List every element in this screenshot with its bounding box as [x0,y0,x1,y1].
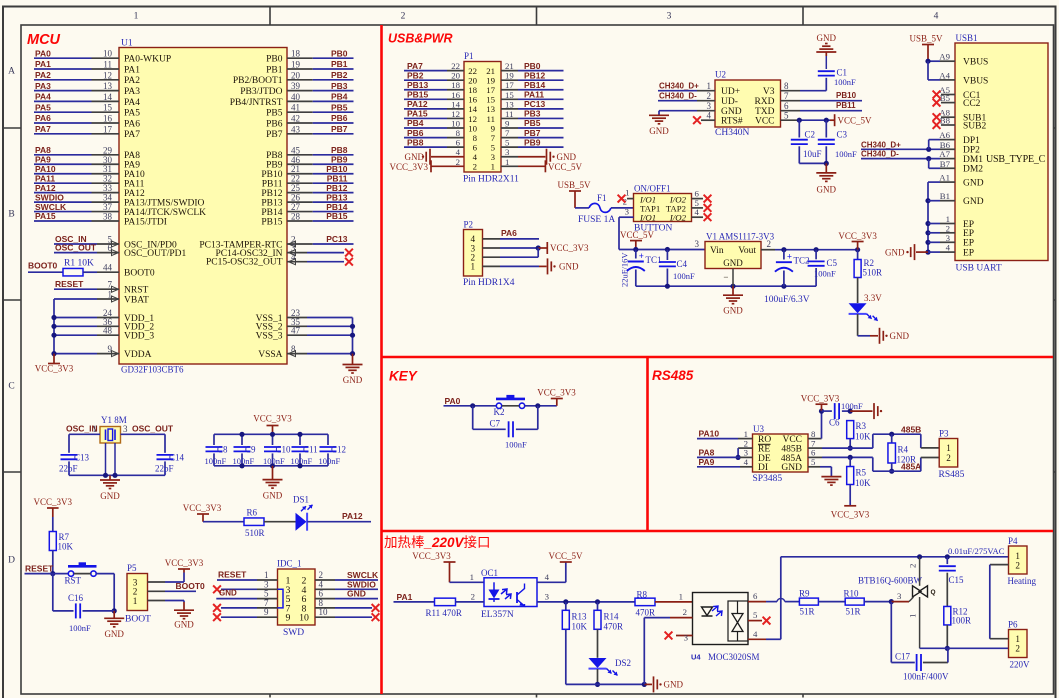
svg-text:R2: R2 [864,258,875,268]
svg-text:100nF: 100nF [505,440,527,450]
svg-text:P4: P4 [1008,536,1018,546]
svg-text:22: 22 [451,61,460,71]
svg-text:A1: A1 [939,173,950,183]
svg-text:P2: P2 [464,220,474,230]
svg-text:DP1: DP1 [963,136,980,146]
svg-text:220V: 220V [1010,660,1031,670]
svg-text:2: 2 [946,223,950,233]
svg-text:15: 15 [486,95,495,105]
svg-text:470R: 470R [636,608,656,618]
svg-text:GND: GND [963,179,984,189]
svg-text:PA6: PA6 [124,119,140,129]
svg-text:1: 1 [134,12,139,22]
svg-text:PA9: PA9 [699,457,715,467]
svg-text:1: 1 [946,443,951,453]
svg-text:100nF: 100nF [841,401,863,411]
svg-text:PB1: PB1 [331,59,348,69]
svg-text:C10: C10 [276,445,292,455]
svg-text:K2: K2 [494,407,505,417]
svg-text:VCC: VCC [755,117,775,127]
svg-text:PB7: PB7 [266,130,283,140]
svg-text:PA15/JTDI: PA15/JTDI [124,217,167,227]
svg-text:2: 2 [456,157,460,167]
svg-text:R7: R7 [59,532,70,542]
svg-text:14: 14 [103,92,113,102]
svg-text:GND: GND [557,152,577,162]
svg-text:EP: EP [963,229,974,239]
svg-text:CH340N: CH340N [715,128,749,138]
svg-text:100nF: 100nF [69,623,91,633]
svg-text:VCC_3V3: VCC_3V3 [412,551,451,561]
svg-text:PB12: PB12 [524,70,546,80]
svg-text:5: 5 [505,138,510,148]
svg-text:C11: C11 [303,445,318,455]
svg-text:A6: A6 [939,130,950,140]
svg-text:V3: V3 [763,87,775,97]
svg-text:PB3: PB3 [524,109,541,119]
svg-text:U4: U4 [691,653,701,662]
svg-text:C2: C2 [805,130,816,140]
svg-text:R13: R13 [572,612,588,622]
svg-text:GND: GND [890,331,910,341]
svg-text:PB5: PB5 [266,109,283,119]
svg-text:PB5: PB5 [524,118,541,128]
svg-text:FUSE 1A: FUSE 1A [578,215,615,225]
svg-text:GND: GND [343,375,363,385]
svg-text:VCC_3V3: VCC_3V3 [389,162,428,172]
svg-text:3: 3 [123,424,128,434]
svg-text:10K: 10K [855,432,871,442]
svg-text:BOOT0: BOOT0 [28,261,58,271]
svg-text:3: 3 [707,101,712,111]
svg-text:VCC_3V3: VCC_3V3 [831,510,870,520]
svg-text:NRST: NRST [124,286,148,296]
svg-text:R6: R6 [247,508,258,518]
svg-text:10: 10 [319,607,329,617]
svg-text:1: 1 [707,81,712,91]
svg-text:6: 6 [753,591,758,601]
svg-text:VCC_3V3: VCC_3V3 [550,243,589,253]
svg-text:10: 10 [468,123,477,133]
svg-text:48: 48 [103,326,113,336]
svg-text:3: 3 [545,591,550,601]
svg-text:PB6: PB6 [266,119,283,129]
svg-text:7: 7 [784,91,789,101]
svg-text:UD-: UD- [721,97,738,107]
svg-text:RESET: RESET [25,564,54,574]
svg-text:51R: 51R [846,607,861,617]
svg-text:GND: GND [174,620,194,630]
svg-text:RO: RO [758,435,771,445]
svg-text:I/O1: I/O1 [639,213,656,223]
svg-text:RTS#: RTS# [721,117,743,127]
svg-text:4: 4 [946,243,951,253]
svg-text:B7: B7 [940,159,951,169]
svg-text:6: 6 [473,142,478,152]
svg-text:−: − [723,272,728,282]
svg-text:GND: GND [263,491,283,501]
svg-text:CH340_D-: CH340_D- [659,92,697,101]
svg-text:EL357N: EL357N [481,610,514,620]
svg-text:R8: R8 [637,590,648,600]
svg-text:DS2: DS2 [615,658,631,668]
svg-text:DM1: DM1 [963,155,983,165]
svg-text:PB15: PB15 [261,217,282,227]
svg-text:I/O2: I/O2 [669,213,687,223]
svg-text:U1: U1 [121,39,133,49]
svg-text:A7: A7 [939,149,950,159]
svg-text:0.01uF/275VAC: 0.01uF/275VAC [948,546,1005,556]
svg-text:VCC_3V3: VCC_3V3 [35,364,74,374]
svg-text:1: 1 [491,162,495,172]
svg-text:20: 20 [291,70,301,80]
svg-text:DI: DI [758,463,768,473]
svg-text:18: 18 [468,85,477,95]
svg-text:1: 1 [744,429,748,439]
svg-text:Pin HDR1X4: Pin HDR1X4 [463,278,515,288]
svg-text:4: 4 [545,572,550,582]
svg-text:GND: GND [104,629,124,639]
svg-text:14: 14 [451,99,460,109]
svg-text:1: 1 [93,424,98,434]
svg-text:UD+: UD+ [721,87,740,97]
svg-text:485B: 485B [901,424,921,434]
svg-text:19: 19 [291,60,301,70]
svg-text:3: 3 [695,239,700,249]
svg-text:4: 4 [707,111,712,121]
svg-text:7: 7 [505,128,510,138]
svg-text:6: 6 [456,138,461,148]
svg-text:7: 7 [491,133,496,143]
svg-text:3.3V: 3.3V [864,293,882,303]
svg-text:GND: GND [723,258,743,268]
svg-text:1: 1 [471,262,476,272]
svg-text:PA5: PA5 [35,102,51,112]
svg-text:Heating: Heating [1008,576,1037,586]
svg-text:2: 2 [1015,644,1020,654]
svg-text:PA0: PA0 [445,396,461,406]
svg-text:5: 5 [811,457,816,467]
svg-text:100nF: 100nF [834,77,856,87]
svg-text:GND: GND [664,680,684,690]
svg-text:C1: C1 [837,68,848,78]
svg-text:4: 4 [695,207,700,217]
svg-text:V1 AMS1117-3V3: V1 AMS1117-3V3 [706,232,775,242]
svg-text:PA5: PA5 [124,109,140,119]
svg-text:RST: RST [65,576,82,586]
svg-text:2: 2 [473,162,477,172]
svg-text:USB_5V: USB_5V [909,34,943,44]
svg-text:F1: F1 [597,193,607,203]
svg-text:17: 17 [505,80,514,90]
svg-text:D: D [8,556,15,566]
svg-text:GND: GND [219,588,237,597]
svg-text:VCC_5V: VCC_5V [548,551,583,561]
svg-text:9: 9 [491,123,496,133]
svg-text:22uF/16V: 22uF/16V [620,252,630,287]
svg-text:MOC3020SM: MOC3020SM [708,652,760,662]
svg-text:GND: GND [885,247,905,257]
svg-text:Vout: Vout [738,246,756,256]
svg-text:2: 2 [471,591,475,601]
svg-text:PA1: PA1 [124,65,140,75]
svg-text:PB15: PB15 [326,211,348,221]
svg-text:9: 9 [286,613,291,624]
svg-text:PA1: PA1 [35,59,51,69]
svg-text:PA0: PA0 [35,48,51,58]
svg-text:2: 2 [1015,560,1020,570]
svg-text:GND: GND [963,197,984,207]
svg-text:8: 8 [456,128,461,138]
svg-text:12: 12 [468,114,477,124]
svg-text:8: 8 [784,81,789,91]
svg-text:8: 8 [473,133,478,143]
svg-text:10: 10 [299,613,309,624]
svg-text:PB2: PB2 [331,70,348,80]
svg-text:2: 2 [707,91,712,101]
svg-text:C13: C13 [74,453,90,463]
svg-text:R1 10K: R1 10K [64,259,94,269]
svg-text:9: 9 [505,119,510,129]
svg-text:R3: R3 [856,421,867,431]
svg-text:Pin HDR2X11: Pin HDR2X11 [463,175,519,185]
svg-text:C: C [8,382,14,392]
svg-text:R4: R4 [898,445,909,455]
svg-text:11: 11 [103,60,112,70]
svg-text:2: 2 [683,607,687,617]
svg-text:100uF/6.3V: 100uF/6.3V [764,295,810,305]
svg-text:PB2: PB2 [407,70,424,80]
svg-text:3: 3 [491,152,496,162]
svg-text:C3: C3 [837,130,848,140]
svg-text:51R: 51R [800,607,815,617]
svg-text:GD32F103CBT6: GD32F103CBT6 [121,365,184,375]
svg-text:VBUS: VBUS [963,76,988,86]
svg-text:PC13: PC13 [326,234,348,244]
svg-text:GND: GND [817,33,837,43]
svg-text:IDC_1: IDC_1 [277,559,302,569]
svg-text:C15: C15 [949,575,965,585]
svg-text:3: 3 [667,12,672,22]
svg-text:41: 41 [291,103,300,113]
svg-text:PB14: PB14 [524,80,546,90]
svg-text:C7: C7 [490,419,501,429]
svg-text:TXD: TXD [755,107,775,117]
svg-text:100nF: 100nF [673,271,695,281]
svg-text:VCC_3V3: VCC_3V3 [183,503,222,513]
svg-text:4: 4 [473,152,478,162]
svg-text:PA4: PA4 [124,98,140,108]
svg-text:加热棒_220V接口: 加热棒_220V接口 [384,534,491,550]
svg-text:PA4: PA4 [35,92,51,102]
svg-text:VBUS: VBUS [963,58,988,68]
svg-text:C5: C5 [827,258,838,268]
svg-text:VCC_3V3: VCC_3V3 [253,414,292,424]
svg-text:2: 2 [767,239,772,249]
svg-text:R5: R5 [856,468,867,478]
svg-text:PB7: PB7 [331,124,348,134]
svg-text:100nF: 100nF [835,149,857,159]
svg-text:21: 21 [486,66,495,76]
svg-text:2: 2 [946,453,951,463]
svg-text:4: 4 [753,629,758,639]
svg-text:40: 40 [291,92,301,102]
svg-text:U2: U2 [715,70,726,80]
svg-text:USB1: USB1 [956,33,978,43]
svg-text:SP3485: SP3485 [753,474,783,484]
svg-text:PA15: PA15 [35,211,56,221]
svg-text:PB7: PB7 [524,128,541,138]
svg-text:OSC_OUT: OSC_OUT [55,243,97,253]
svg-text:P3: P3 [939,429,949,439]
svg-text:B: B [8,210,14,220]
svg-text:Vin: Vin [710,246,724,256]
svg-text:4: 4 [744,457,749,467]
svg-text:PA15: PA15 [407,109,428,119]
svg-text:16: 16 [103,114,113,124]
svg-text:21: 21 [505,61,514,71]
svg-text:1: 1 [625,188,629,198]
svg-text:PB3: PB3 [331,81,348,91]
svg-text:VCC_3V3: VCC_3V3 [34,497,73,507]
svg-text:+: + [787,252,792,262]
svg-text:PB0: PB0 [266,55,283,65]
svg-text:SWD: SWD [283,628,304,638]
svg-text:44: 44 [103,263,113,273]
svg-text:PA2: PA2 [35,70,51,80]
svg-text:C12: C12 [331,445,346,455]
svg-text:GND: GND [100,491,120,501]
svg-text:CH340_D+: CH340_D+ [861,140,901,149]
svg-text:VCC_5V: VCC_5V [548,162,583,172]
svg-text:VSSA: VSSA [258,350,282,360]
svg-text:3: 3 [684,633,689,643]
svg-text:VCC_3V3: VCC_3V3 [537,388,576,398]
svg-text:PB4: PB4 [331,92,348,102]
svg-text:PA10: PA10 [699,429,720,439]
svg-text:22pF: 22pF [155,464,174,474]
svg-text:3: 3 [897,591,902,601]
svg-text:17: 17 [486,85,495,95]
svg-text:C4: C4 [677,259,688,269]
svg-text:GND: GND [723,306,743,316]
svg-text:1: 1 [470,572,474,582]
svg-text:PB1: PB1 [266,65,283,75]
svg-text:13: 13 [505,99,514,109]
svg-text:PA1: PA1 [397,592,413,602]
svg-text:PB6: PB6 [407,128,424,138]
svg-text:VSS_3: VSS_3 [256,332,283,342]
svg-text:PB3/JTDO: PB3/JTDO [240,87,282,97]
svg-text:100nF/400V: 100nF/400V [903,672,949,682]
svg-text:GND: GND [405,152,425,162]
svg-text:2: 2 [908,564,918,568]
svg-text:VCC_3V3: VCC_3V3 [838,231,877,241]
svg-text:6: 6 [784,101,789,111]
svg-text:BOOT: BOOT [125,615,151,625]
svg-text:CH340_D+: CH340_D+ [659,82,699,91]
svg-text:P5: P5 [127,563,137,573]
svg-text:PB0: PB0 [331,48,348,58]
svg-text:KEY: KEY [389,369,419,384]
svg-text:100nF: 100nF [319,456,341,466]
svg-text:1: 1 [505,157,509,167]
svg-text:5: 5 [784,111,789,121]
svg-text:C17: C17 [895,652,911,662]
svg-text:PA7: PA7 [407,61,423,71]
svg-text:PB4/JNTRST: PB4/JNTRST [230,98,283,108]
svg-text:3: 3 [505,147,510,157]
svg-text:100nF: 100nF [814,269,836,279]
svg-text:VBAT: VBAT [124,295,149,305]
svg-text:4: 4 [934,12,939,22]
svg-text:19: 19 [486,75,495,85]
svg-text:USB_5V: USB_5V [557,180,591,190]
svg-text:10uF: 10uF [803,149,822,159]
svg-text:GND: GND [559,262,579,272]
svg-text:22pF: 22pF [59,464,78,474]
svg-text:R14: R14 [604,612,620,622]
svg-text:A9: A9 [939,52,950,62]
svg-text:P1: P1 [464,51,474,61]
svg-text:ON/OFF1: ON/OFF1 [634,184,671,194]
svg-text:PA7: PA7 [124,130,140,140]
svg-text:38: 38 [103,212,113,222]
svg-text:C14: C14 [169,453,185,463]
svg-text:12: 12 [451,109,460,119]
svg-text:10K: 10K [572,622,588,632]
svg-text:43: 43 [291,124,301,134]
svg-text:VCC: VCC [782,435,802,445]
svg-text:510R: 510R [863,268,883,278]
svg-text:CC2: CC2 [963,99,981,109]
svg-text:USB_TYPE_C: USB_TYPE_C [986,154,1046,165]
svg-text:39: 39 [291,81,301,91]
svg-text:19: 19 [505,71,514,81]
svg-text:11: 11 [505,109,513,119]
svg-text:16: 16 [451,90,460,100]
svg-text:P6: P6 [1008,619,1018,629]
svg-text:4: 4 [456,147,461,157]
svg-text:PA7: PA7 [35,124,51,134]
svg-text:RESET: RESET [55,279,84,289]
svg-text:SUB2: SUB2 [963,121,986,131]
svg-text:PB9: PB9 [524,137,541,147]
svg-text:PA11: PA11 [524,90,544,100]
svg-text:8: 8 [811,429,816,439]
svg-text:47: 47 [291,326,301,336]
svg-text:470R: 470R [604,622,624,632]
svg-text:RXD: RXD [754,97,774,107]
svg-text:VDD_3: VDD_3 [124,332,154,342]
svg-text:1: 1 [679,591,683,601]
svg-text:PA3: PA3 [124,87,140,97]
svg-text:28: 28 [291,212,301,222]
svg-text:15: 15 [103,103,113,113]
svg-text:GND: GND [781,463,802,473]
svg-text:DM2: DM2 [963,165,983,175]
svg-text:EP: EP [963,249,974,259]
svg-text:18: 18 [291,49,301,59]
svg-text:C8: C8 [217,445,228,455]
svg-text:EP: EP [963,239,974,249]
svg-text:14: 14 [468,104,477,114]
svg-text:3: 3 [946,233,951,243]
svg-text:20: 20 [451,71,460,81]
svg-text:USB&PWR: USB&PWR [388,32,453,46]
svg-text:22: 22 [468,66,477,76]
svg-text:PB15: PB15 [407,90,429,100]
